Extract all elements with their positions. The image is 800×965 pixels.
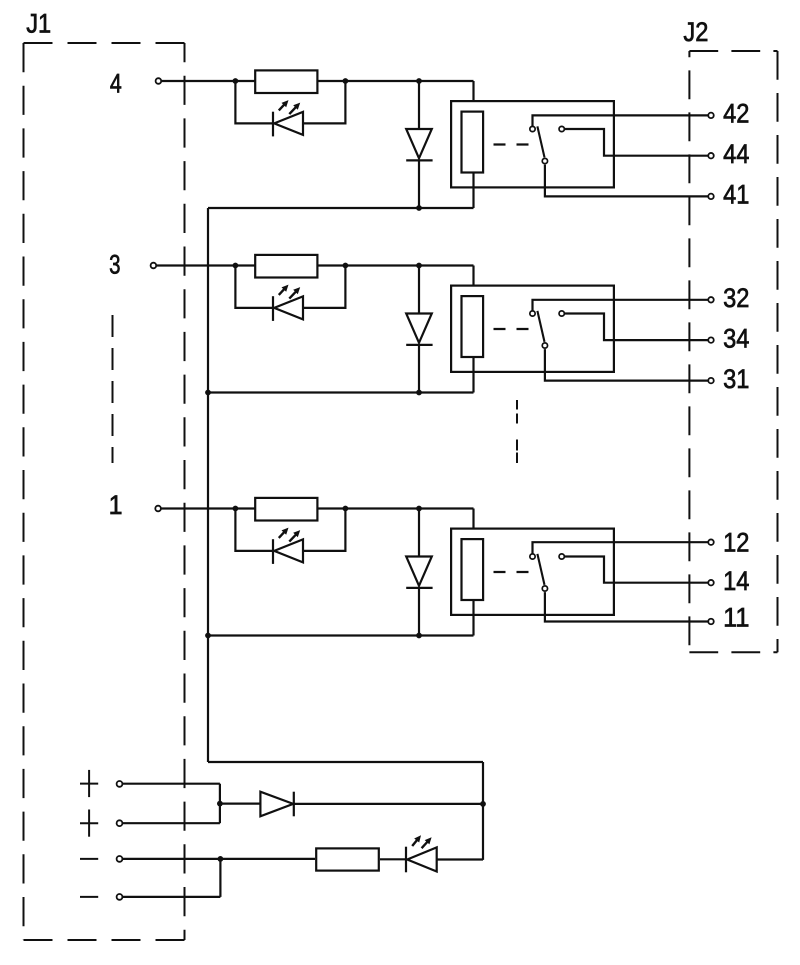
power + terminal B symbol — [80, 810, 98, 837]
diode D5 reverse polarity (cathode bar) — [293, 792, 295, 817]
terminal pin 1 open circle — [155, 506, 161, 512]
wire LED4 cathode branch — [303, 81, 345, 123]
wire diode D5 cathode to supply node — [294, 803, 483, 805]
wire relay K4 coil top — [472, 81, 474, 111]
power - terminal A symbol — [80, 858, 98, 860]
LED LED3 status (triangle) — [274, 296, 303, 319]
diode D4 freewheel (cathode bar) — [406, 159, 432, 161]
wire channel 4 return — [208, 207, 474, 209]
diode D5 reverse polarity (triangle) — [260, 792, 293, 817]
wire relay K1 coil top — [472, 509, 474, 539]
wire contact 44 — [564, 129, 708, 156]
ellipsis omitted channel (J1 side) — [112, 315, 114, 463]
diode D1 freewheel (cathode bar) — [406, 587, 432, 589]
connector J2 dashed outline — [689, 51, 777, 652]
wire + terminal A — [122, 783, 220, 785]
switch S4 common contact — [542, 158, 547, 163]
node junction input 3 right — [343, 263, 349, 269]
node junction diode D3 top — [416, 263, 422, 269]
resistor R4 — [255, 70, 317, 93]
connector J1 dashed outline — [24, 43, 185, 940]
svg-text:12: 12 — [723, 528, 749, 558]
svg-text:14: 14 — [723, 566, 749, 596]
resistor R5 — [316, 848, 379, 870]
wire channel 3 return — [208, 391, 474, 393]
diode D3 freewheel (cathode bar) — [406, 344, 432, 346]
switch S1 blade — [537, 554, 544, 585]
wire resistor R5 to LED5 — [380, 858, 406, 860]
wire + feed to diode D5 — [220, 802, 261, 804]
wire diode D1 cathode — [418, 588, 420, 636]
svg-text:42: 42 — [723, 99, 749, 129]
node junction diode D4 top — [416, 78, 422, 84]
relay K1 coil — [462, 539, 484, 600]
switch S1 NC contact — [530, 554, 535, 559]
wire contact 32 — [533, 300, 709, 311]
svg-text:J1: J1 — [26, 9, 51, 39]
terminal pin - B open circle — [117, 894, 123, 900]
switch S3 blade — [537, 311, 544, 342]
ellipsis omitted channel (relay side) — [516, 400, 518, 463]
node junction diode D1 bottom — [416, 633, 422, 639]
svg-text:41: 41 — [723, 180, 749, 210]
terminal pin 44 open circle — [708, 153, 714, 159]
wire input 1 to resistor network — [161, 507, 473, 509]
relay K3 coil — [462, 296, 484, 357]
LED LED4 emission arrows — [279, 100, 300, 114]
wire contact 11 — [545, 592, 708, 621]
power + terminal A symbol — [80, 770, 98, 797]
terminal pin 34 open circle — [708, 337, 714, 343]
node junction input 4 left — [233, 78, 239, 84]
relay K4 outline box — [451, 101, 614, 187]
terminal pin 41 open circle — [708, 194, 714, 200]
wire LED1 cathode branch — [303, 509, 345, 551]
node junction return bus channel 3 — [205, 390, 211, 396]
LED LED1 status (triangle) — [274, 539, 303, 562]
svg-text:34: 34 — [723, 323, 749, 353]
LED LED4 status (cathode bar) — [272, 112, 274, 137]
wire return bus horizontal — [208, 761, 483, 763]
node junction diode D3 bottom — [416, 390, 422, 396]
terminal pin + A open circle — [117, 781, 123, 787]
terminal pin 32 open circle — [708, 297, 714, 303]
wire diode D3 anode — [418, 266, 420, 314]
switch S3 NO contact — [559, 311, 564, 316]
wire contact 31 — [545, 349, 708, 381]
terminal pin 42 open circle — [708, 113, 714, 119]
wire contact 34 — [564, 314, 708, 341]
terminal pin - A open circle — [117, 856, 123, 862]
wire relay K3 coil top — [472, 266, 474, 296]
wire diode D4 cathode — [418, 160, 420, 208]
wire contact 12 — [533, 542, 709, 553]
relay K1 outline box — [451, 529, 614, 615]
svg-text:J2: J2 — [683, 17, 708, 47]
wire supply feed vertical — [482, 762, 484, 860]
node junction diode D1 top — [416, 506, 422, 512]
terminal pin 31 open circle — [708, 378, 714, 384]
svg-text:44: 44 — [723, 139, 749, 169]
wire input 3 to resistor network — [156, 264, 473, 266]
wire LED1 anode branch — [235, 509, 272, 551]
relay K4 coil — [462, 112, 484, 173]
wire diode D4 anode — [418, 81, 420, 129]
wire LED5 anode to supply node — [437, 858, 483, 860]
node junction return bus channel 1 — [205, 633, 211, 639]
wire LED4 anode branch — [235, 81, 272, 123]
diode D4 freewheel (triangle) — [406, 129, 432, 158]
wire relay K4 coil bottom — [472, 173, 474, 209]
switch S3 common contact — [542, 343, 547, 348]
LED LED1 status (cathode bar) — [272, 539, 274, 564]
wire input 4 to resistor network — [161, 80, 473, 82]
svg-text:11: 11 — [723, 603, 749, 633]
relay K4 actuation dashed link — [494, 143, 529, 145]
terminal pin 11 open circle — [708, 619, 714, 625]
LED LED4 status (triangle) — [274, 112, 303, 135]
relay K1 actuation dashed link — [494, 571, 529, 573]
power - terminal B symbol — [80, 896, 98, 898]
terminal pin 3 open circle — [151, 263, 157, 269]
LED LED3 emission arrows — [279, 285, 300, 299]
node junction + feed — [217, 801, 223, 807]
svg-text:3: 3 — [109, 250, 120, 280]
relay K3 actuation dashed link — [494, 328, 529, 330]
diode D3 freewheel (triangle) — [406, 314, 432, 343]
node junction input 3 left — [233, 263, 239, 269]
LED LED5 emission arrows — [412, 835, 431, 848]
node junction diode D4 bottom — [416, 205, 422, 211]
wire LED3 cathode branch — [303, 266, 345, 308]
switch S4 blade — [537, 126, 544, 157]
switch S1 common contact — [542, 586, 547, 591]
wire relay K3 coil bottom — [472, 357, 474, 393]
wire return bus vertical — [207, 208, 209, 762]
terminal pin 4 open circle — [156, 78, 162, 84]
LED LED5 power indicator (triangle) — [407, 847, 437, 871]
LED LED1 emission arrows — [279, 528, 300, 542]
node junction - terminals — [218, 856, 224, 862]
LED LED3 status (cathode bar) — [272, 296, 274, 321]
diode D1 freewheel (triangle) — [406, 557, 432, 586]
svg-text:31: 31 — [723, 364, 749, 394]
wire diode D1 anode — [418, 509, 420, 557]
wire LED3 anode branch — [235, 266, 272, 308]
terminal pin + B open circle — [117, 820, 123, 826]
wire - terminal A to resistor R5 — [122, 858, 315, 860]
switch S3 NC contact — [530, 311, 535, 316]
switch S1 NO contact — [559, 554, 564, 559]
svg-text:4: 4 — [110, 69, 122, 99]
terminal pin 12 open circle — [708, 539, 714, 545]
switch S4 NC contact — [530, 126, 535, 131]
wire + terminals join — [219, 784, 221, 824]
wire - terminal B — [122, 896, 220, 898]
wire contact 14 — [564, 557, 708, 583]
wire contact 42 — [533, 115, 709, 126]
wire diode D3 cathode — [418, 345, 420, 393]
node junction input 1 left — [233, 506, 239, 512]
node junction input 1 right — [343, 506, 349, 512]
node junction supply feed — [480, 801, 486, 807]
wire - terminals join — [219, 859, 221, 897]
resistor R3 — [255, 255, 317, 278]
wire relay K1 coil bottom — [472, 600, 474, 636]
wire contact 41 — [545, 165, 708, 197]
node junction input 4 right — [343, 78, 349, 84]
terminal pin 14 open circle — [708, 580, 714, 586]
relay K3 outline box — [451, 286, 614, 372]
wire channel 1 return — [208, 634, 474, 636]
resistor R1 — [255, 498, 317, 521]
wire + terminal B — [122, 822, 220, 824]
svg-text:1: 1 — [109, 490, 123, 520]
LED LED5 power indicator (cathode bar) — [405, 847, 407, 873]
svg-text:32: 32 — [723, 283, 749, 313]
switch S4 NO contact — [559, 126, 564, 131]
